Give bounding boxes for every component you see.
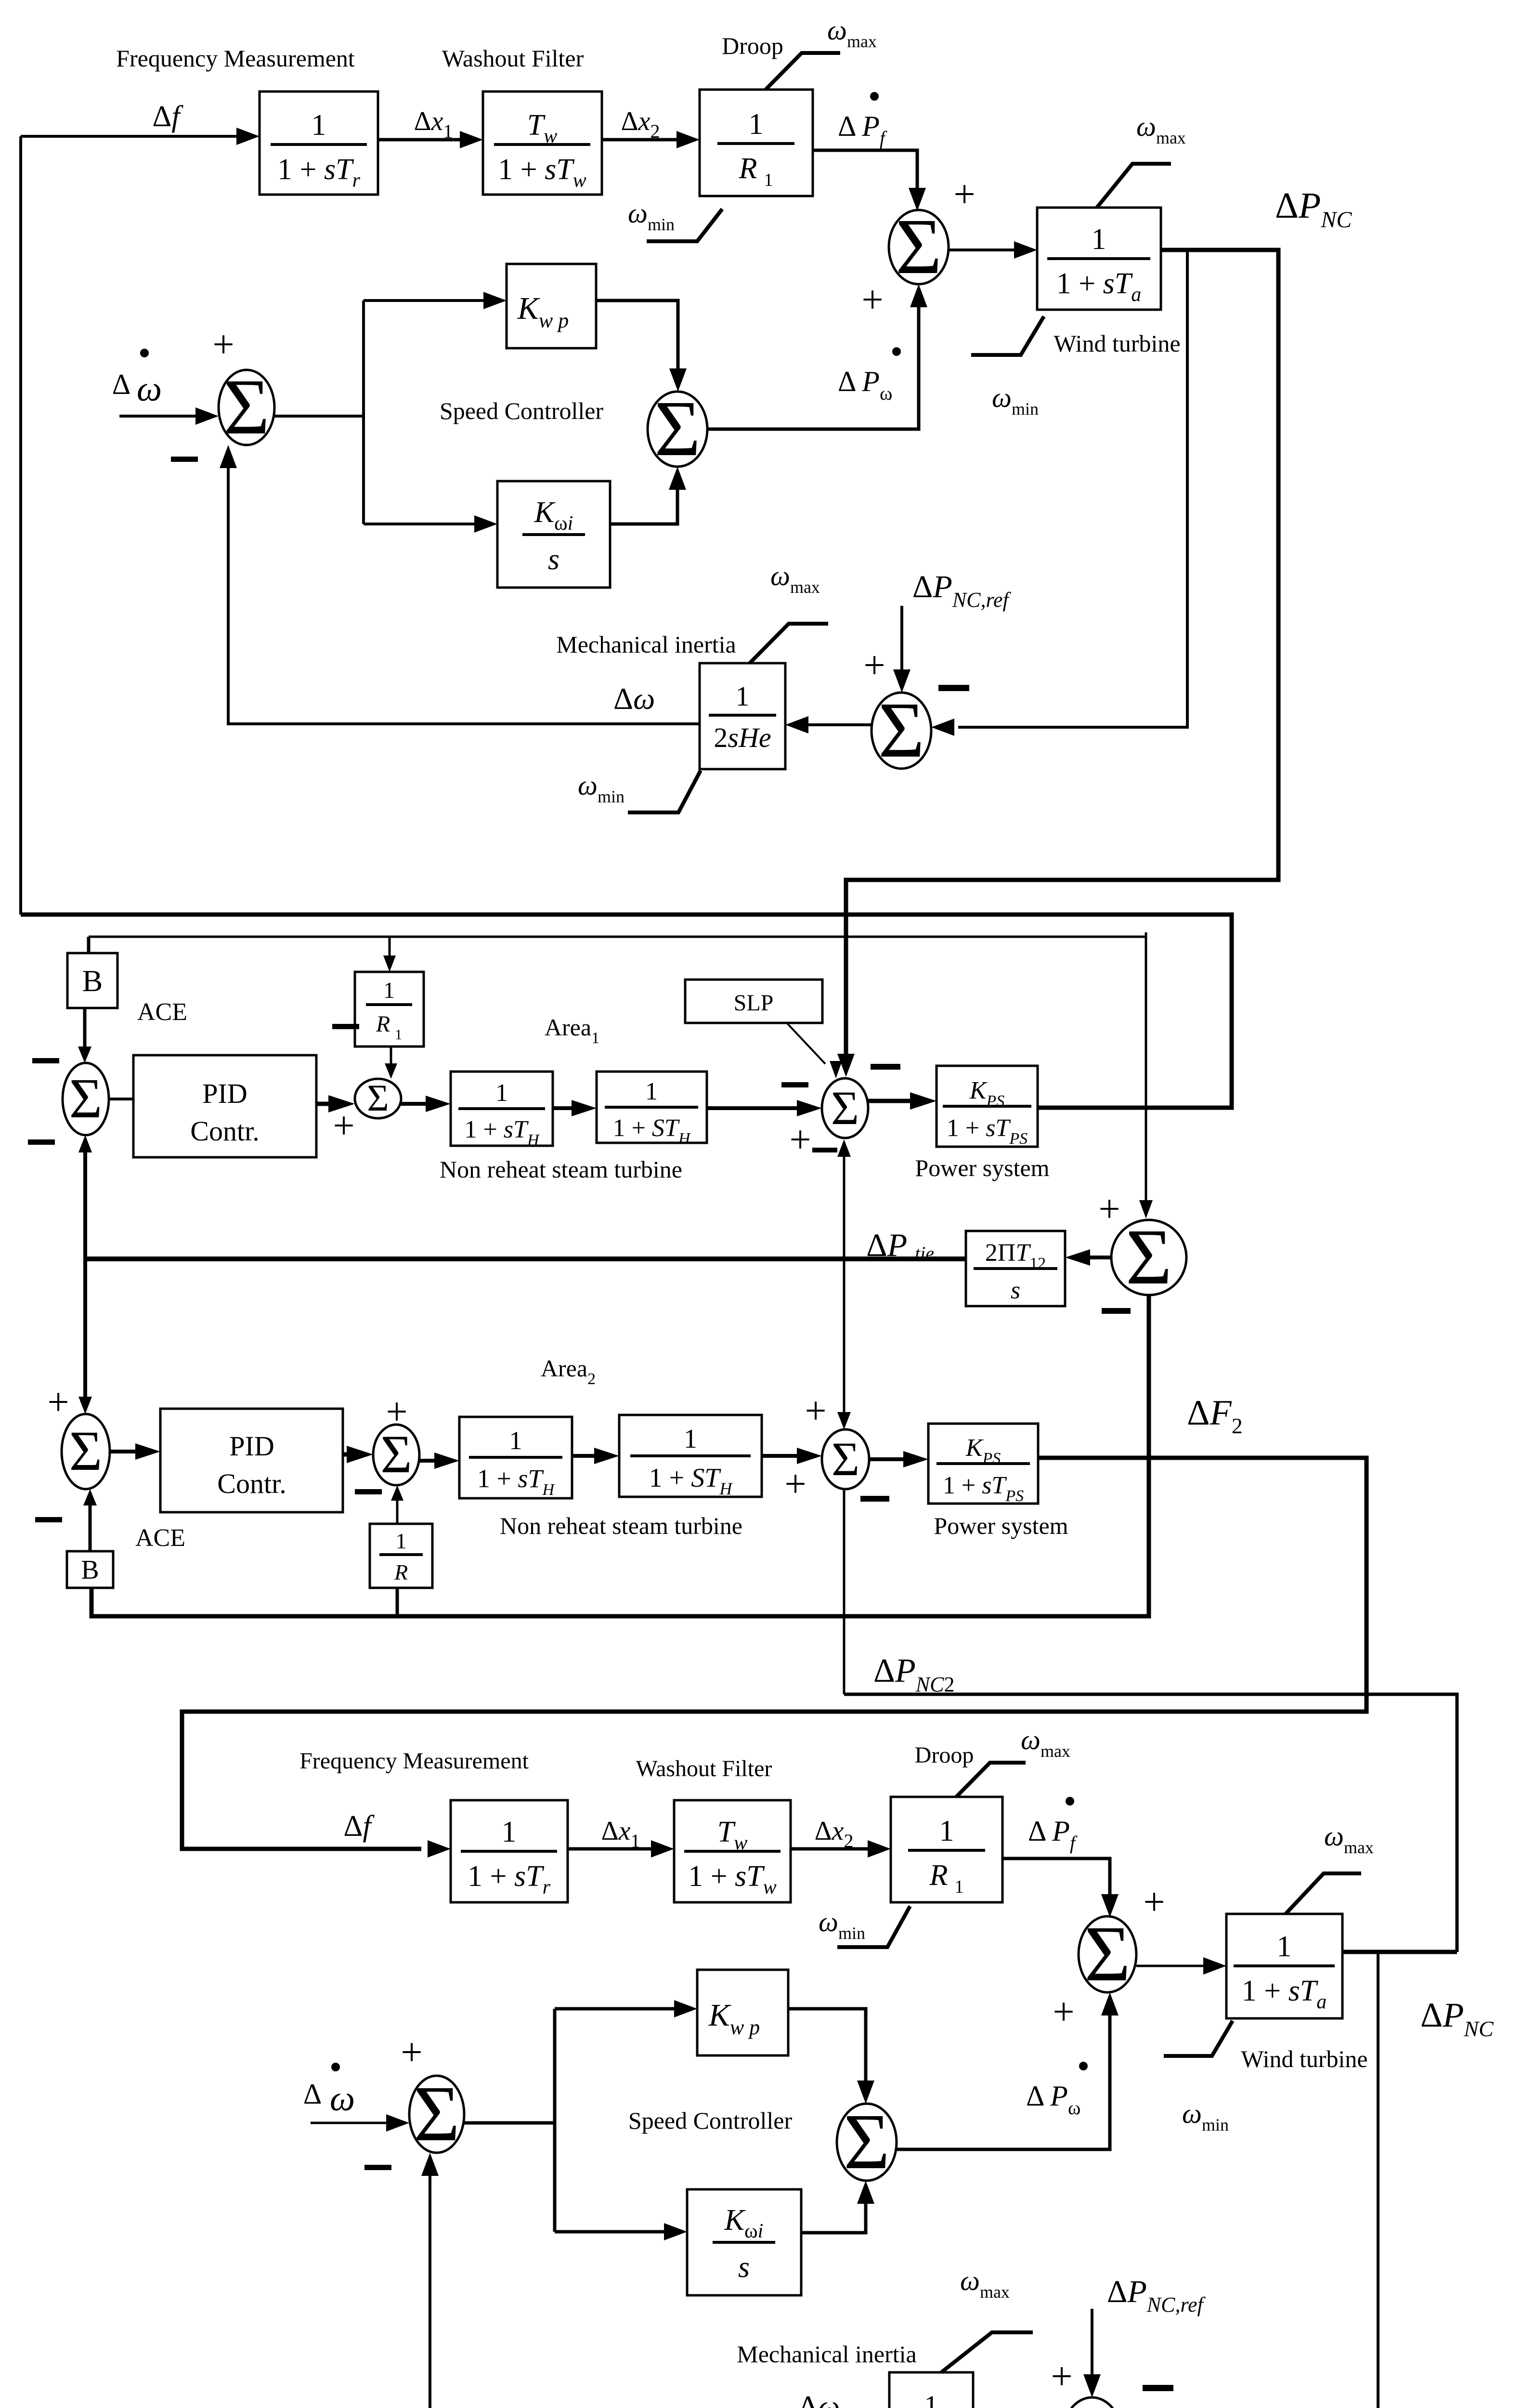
wire dPNC2 line: [844, 1694, 1457, 1952]
block KWI2 Kwi/s: [687, 2189, 801, 2295]
wire PID1 to S5: [316, 1095, 355, 1112]
node dx1 label: [414, 106, 453, 142]
svg-text:1: 1: [684, 1424, 697, 1454]
svg-text:+: +: [863, 644, 885, 687]
wire dPtie line: [85, 1256, 966, 1261]
wire B1 to S4: [78, 1008, 91, 1063]
limiter wmax TA1: [1097, 164, 1171, 208]
label dPNC bottom: [1420, 1996, 1494, 2041]
wire TH2A to TH2B: [572, 1448, 619, 1464]
node dx2b label: [815, 1816, 854, 1852]
svg-text:Contr.: Contr.: [217, 1468, 286, 1499]
svg-text:1: 1: [749, 108, 764, 141]
label minus S12 bottom: [364, 2165, 391, 2170]
node dPomega1 label: [838, 347, 901, 404]
block TH2A 1/(1+sTH): [459, 1417, 572, 1499]
svg-text:Δω: Δω: [613, 681, 655, 716]
svg-text:Σ: Σ: [896, 202, 942, 290]
wire TH2B to S10: [762, 1448, 822, 1464]
label plus S11 bottom: [1053, 1991, 1074, 2033]
label dPtie: [866, 1227, 934, 1264]
svg-text:+: +: [1053, 1991, 1074, 2033]
label wmax He1: [770, 560, 820, 597]
wire S6 to KPS1: [868, 1092, 937, 1110]
block TA1 wind turbine 1/(1+sTa): [1037, 208, 1161, 310]
limiter wmin He1: [628, 771, 701, 812]
wire dF1 distribution line: [89, 932, 1146, 953]
wire S7 down to B2 line: [91, 1295, 1149, 1616]
label minus S5 top: [332, 1024, 359, 1029]
label wmin droop1: [628, 197, 675, 234]
wire S3 to HE1: [785, 716, 872, 733]
node dx1b label: [601, 1816, 640, 1852]
summer S12 (speed error sum 2): [409, 2069, 464, 2158]
limiter wmin droop1: [647, 209, 722, 241]
wire S13 to S11: [897, 1992, 1119, 2149]
svg-text:PID: PID: [202, 1078, 247, 1109]
label minus S4 bottom: [28, 1139, 55, 1145]
svg-text:+: +: [861, 279, 883, 321]
label wmax He2: [960, 2265, 1010, 2302]
label minus S6 left: [781, 1082, 808, 1087]
svg-text:Σ: Σ: [1126, 1213, 1172, 1301]
block KWI1 Kwi/s: [497, 481, 610, 588]
wire R1 to sum W1: [813, 150, 926, 211]
svg-text:ω: ω: [330, 2079, 355, 2119]
svg-text:s: s: [548, 543, 559, 576]
svg-text:+: +: [789, 1119, 811, 1161]
label Non reheat steam turbine 2: [500, 1512, 742, 1539]
svg-text:Σ: Σ: [1084, 1910, 1131, 1998]
wire TA2 output: [1342, 1950, 1457, 1954]
block R1A 1/R1: [355, 972, 424, 1047]
svg-text:Non reheat steam turbine: Non reheat steam turbine: [440, 1156, 682, 1183]
wire tie vertical S4-S8: [78, 1135, 92, 1414]
svg-text:1: 1: [383, 978, 395, 1003]
label dF2: [1187, 1393, 1243, 1438]
wire S9 to TH2A: [419, 1453, 459, 1469]
label minus S4 top: [32, 1058, 59, 1063]
wire S5 to TH1A: [401, 1096, 451, 1112]
summer S14 (reference sum 2): [1062, 2393, 1122, 2408]
svg-text:Speed Controller: Speed Controller: [440, 397, 604, 424]
block TW1 Tw/(1+sTw): [483, 92, 602, 195]
block B2 frequency bias: [67, 1551, 113, 1588]
wire TR1 to TW1: [378, 131, 483, 148]
label Power system 1: [915, 1154, 1049, 1181]
wire KWI1 to S2: [610, 467, 686, 524]
label wmin TA1: [992, 382, 1039, 419]
block R2D droop 1/R1: [891, 1797, 1002, 1902]
label minus S7 bottom: [1102, 1308, 1131, 1314]
svg-text:+: +: [212, 324, 234, 366]
block TW2 Tw/(1+sTw): [674, 1800, 791, 1902]
wire branch to KWP1: [364, 292, 507, 309]
svg-text:Δ: Δ: [112, 368, 131, 400]
limiter wmax TA2: [1286, 1873, 1361, 1914]
label dPNC top: [1275, 185, 1352, 233]
block HE2 1/2sHe: [889, 2372, 973, 2408]
wire TA2 branch to S14: [1122, 1952, 1378, 2408]
label minus S6 bottom: [812, 1148, 837, 1152]
svg-text:Σ: Σ: [831, 1081, 859, 1135]
label Mechanical inertia 1: [556, 631, 736, 658]
node dw1 label: [613, 681, 655, 716]
svg-text:1: 1: [1277, 1930, 1292, 1963]
node dPf1 label: [838, 92, 887, 149]
label plus S8 top: [47, 1381, 69, 1424]
block PID1 controller: [133, 1055, 316, 1157]
label plus at S3 top: [863, 644, 885, 687]
block R2 1/R: [370, 1524, 432, 1588]
wire R1A to S5: [385, 1047, 397, 1079]
svg-text:1: 1: [736, 681, 750, 712]
block KPS1 Kps/(1+sTps): [937, 1066, 1038, 1148]
label wmin TA2: [1182, 2098, 1229, 2134]
label plus S6 bottomleft: [789, 1119, 811, 1161]
label Area2: [541, 1355, 596, 1388]
svg-text:Σ: Σ: [878, 686, 924, 774]
node dPf2 label: [1028, 1797, 1078, 1854]
svg-text:Washout Filter: Washout Filter: [636, 1756, 772, 1781]
label ACE 2: [135, 1524, 185, 1552]
label plus S5 bottom: [333, 1105, 354, 1147]
wire left vertical df1: [19, 136, 22, 915]
svg-text:Σ: Σ: [223, 363, 270, 451]
wire S1 out with branch: [274, 301, 364, 524]
label Power system 2: [934, 1512, 1068, 1539]
block TH2B 1/(1+STH): [619, 1415, 762, 1498]
block TH1B 1/(1+STH): [597, 1072, 707, 1148]
svg-text:+: +: [1051, 2356, 1072, 2398]
label minus S9 left: [355, 1489, 382, 1494]
svg-text:1: 1: [1092, 223, 1106, 256]
node dPomega2 label: [1026, 2062, 1088, 2119]
summer S9 (governor ref sum area2): [373, 1425, 419, 1485]
limiter wmax droop1: [766, 53, 840, 90]
node df1 label: [152, 100, 183, 133]
wire KWI2 to S13: [801, 2181, 874, 2233]
label minus at S1 bottom: [171, 457, 198, 462]
wire TH1B to S6: [707, 1100, 822, 1116]
wire TH1A to TH1B: [553, 1100, 597, 1116]
svg-text:+: +: [1098, 1188, 1120, 1230]
wire dwdot1 into S1: [119, 407, 219, 425]
label plus at sumW1 bottom: [861, 279, 883, 321]
limiter wmax droop2: [956, 1763, 1026, 1797]
wire sumW1 to TA1: [949, 241, 1037, 259]
wire R2 to S9: [391, 1485, 403, 1524]
label Washout Filter (model 1): [442, 45, 584, 72]
svg-text:Δf: Δf: [152, 100, 183, 133]
label Non reheat steam turbine 1: [440, 1156, 682, 1183]
summer S8 (ACE sum area2): [62, 1414, 110, 1489]
wire TW2 to R2D: [791, 1840, 891, 1858]
limiter wmax He2: [941, 2332, 1033, 2372]
label plus S10 topleft: [805, 1390, 826, 1432]
label dPNC2: [873, 1652, 954, 1696]
wire TR2 to TW2: [568, 1840, 674, 1858]
label Frequency Measurement (model 1): [116, 45, 355, 72]
wire branch to KWI1: [364, 515, 497, 533]
block HE1 1/2sHe: [700, 663, 785, 769]
block SLP label box: [685, 980, 822, 1023]
svg-text:PID: PID: [229, 1430, 274, 1462]
wire S11 to TA2: [1136, 1957, 1226, 1975]
summer S11 (wind model 2 power sum): [1079, 1910, 1136, 1998]
label ACE 1: [137, 998, 187, 1026]
label minus at S3 right: [938, 685, 969, 691]
svg-text:Σ: Σ: [654, 384, 701, 472]
summer S3 (reference sum 1): [872, 686, 931, 774]
svg-text:+: +: [805, 1390, 826, 1432]
svg-text:1: 1: [495, 1079, 508, 1107]
node dwdot2 label: [303, 2063, 355, 2119]
wire S8 to PID2: [110, 1443, 160, 1460]
svg-text:Contr.: Contr.: [190, 1115, 259, 1147]
label dPNCref 1: [912, 569, 1011, 612]
label plus at S1 top: [212, 324, 234, 366]
block TH1A 1/(1+sTH): [451, 1072, 553, 1149]
svg-text:Frequency Measurement: Frequency Measurement: [116, 45, 355, 72]
limiter wmax He1: [750, 624, 828, 663]
summer S7 (tie-line sum): [1111, 1213, 1186, 1301]
node dwdot1 label: [112, 349, 162, 409]
label minus S14 right: [1143, 2385, 1173, 2391]
label plus at sumW1 top: [953, 173, 975, 216]
svg-text:+: +: [333, 1105, 354, 1147]
svg-text:R: R: [394, 1560, 408, 1584]
summer S13 (controller output sum 2): [837, 2097, 897, 2186]
svg-text:1: 1: [509, 1426, 522, 1455]
label plus S7 top: [1098, 1188, 1120, 1230]
limiter wmin TA2: [1164, 2021, 1233, 2056]
wire branch to ref summer S3: [931, 250, 1187, 736]
label wmax droop1: [827, 14, 877, 51]
svg-text:Σ: Σ: [380, 1425, 412, 1484]
svg-text:Mechanical inertia: Mechanical inertia: [737, 2341, 916, 2368]
summer SW1 (wind model 1 power sum): [889, 202, 949, 290]
svg-text:Σ: Σ: [832, 1432, 859, 1486]
svg-text:B: B: [81, 1555, 99, 1585]
block TR2 1/(1+sTr): [451, 1800, 568, 1902]
wire TW1 to R1: [602, 131, 700, 148]
wire dF1 to tie summer S7: [1139, 937, 1153, 1218]
wire R2 stub to tie line: [396, 1588, 399, 1616]
label plus S10 left: [784, 1463, 806, 1505]
wire S12 out with branch: [464, 2009, 555, 2232]
label wmax TA2: [1324, 1820, 1374, 1857]
label plus S11 top: [1143, 1881, 1165, 1924]
svg-text:ACE: ACE: [137, 998, 187, 1026]
summer S2 (controller output sum 1): [648, 384, 707, 472]
wire S4 to PID1: [109, 1098, 133, 1100]
node dx2 label: [621, 106, 660, 142]
svg-text:SLP: SLP: [734, 990, 774, 1016]
label plus S14 top: [1051, 2356, 1072, 2398]
label Speed Controller 1: [440, 397, 604, 424]
svg-text:1: 1: [502, 1816, 517, 1848]
svg-text:Wind turbine: Wind turbine: [1241, 2045, 1367, 2072]
block KWP1 Kwp: [507, 264, 596, 348]
wire S2 to SW1: [707, 284, 927, 429]
label Wind turbine 1: [1054, 330, 1180, 357]
svg-text:+: +: [1143, 1881, 1165, 1924]
svg-text:Wind turbine: Wind turbine: [1054, 330, 1180, 357]
block B1 frequency bias: [67, 953, 117, 1008]
label wmax TA1: [1136, 111, 1186, 147]
svg-text:Non reheat steam turbine: Non reheat steam turbine: [500, 1512, 742, 1539]
wire df1 input arrow: [21, 128, 260, 145]
wire dPNC2 vertical through summers: [837, 1139, 851, 1694]
wire S7 to T12: [1065, 1249, 1111, 1266]
label Wind turbine 2: [1241, 2045, 1367, 2072]
svg-text:Σ: Σ: [844, 2097, 890, 2186]
block TA2 wind turbine 1/(1+sTa): [1226, 1914, 1342, 2018]
svg-text:Σ: Σ: [69, 1067, 103, 1130]
label Mechanical inertia 2: [737, 2341, 916, 2368]
limiter wmin TA1: [971, 316, 1044, 355]
svg-text:Washout Filter: Washout Filter: [442, 45, 584, 72]
svg-text:+: +: [401, 2031, 422, 2074]
svg-text:Speed Controller: Speed Controller: [628, 2107, 793, 2134]
wire KWP1 to S2: [596, 301, 687, 392]
wire KWP2 to S13: [788, 2009, 874, 2104]
svg-text:+: +: [784, 1463, 806, 1505]
wire dF1 return (KPS1 out): [21, 915, 1232, 1108]
label minus S8 bottom: [35, 1517, 62, 1522]
svg-text:Frequency Measurement: Frequency Measurement: [299, 1748, 529, 1774]
summer S5 (governor ref sum area1): [355, 1077, 401, 1119]
node df2 label: [343, 1810, 375, 1843]
svg-text:+: +: [47, 1381, 69, 1424]
label minus S10 bottomright: [860, 1496, 889, 1502]
wire branch to KWI2: [555, 2223, 687, 2240]
svg-text:Δω: Δω: [798, 2389, 840, 2408]
block T12 2*PI*T12/s: [966, 1231, 1065, 1306]
label plus S12 top: [401, 2031, 422, 2074]
label plus S9 top: [386, 1391, 407, 1433]
label Frequency Measurement (model 2): [299, 1748, 529, 1774]
svg-text:Σ: Σ: [414, 2069, 460, 2158]
label dPNCref 2: [1107, 2274, 1206, 2316]
svg-text:1: 1: [312, 109, 326, 142]
svg-text:Σ: Σ: [69, 1419, 103, 1482]
block R1 droop 1/R1: [700, 90, 813, 196]
wire SLP pointer: [787, 1023, 842, 1078]
label minus S6 topright: [871, 1064, 900, 1070]
svg-text:Σ: Σ: [367, 1077, 389, 1119]
block PID2 controller: [160, 1409, 343, 1512]
wire branch to KWP2: [555, 2000, 697, 2017]
svg-text:Droop: Droop: [915, 1742, 974, 1768]
label Droop (model 2): [915, 1742, 974, 1768]
label Area1: [545, 1014, 599, 1047]
summer S6 (power sum area1): [822, 1078, 868, 1138]
svg-text:1: 1: [645, 1078, 658, 1105]
wire R2D to S11: [1002, 1858, 1119, 1917]
wire dPNCref into S14: [1083, 2309, 1101, 2397]
wire B2 to S8: [83, 1489, 97, 1551]
label Speed Controller 2: [628, 2107, 793, 2134]
svg-text:Mechanical inertia: Mechanical inertia: [556, 631, 736, 658]
summer S10 (power sum area2): [822, 1429, 869, 1489]
svg-text:+: +: [953, 173, 975, 216]
svg-text:Droop: Droop: [722, 32, 783, 59]
label Droop (model 1): [722, 32, 783, 59]
block KPS2 Kps/(1+sTps): [928, 1424, 1038, 1505]
svg-text:s: s: [1011, 1277, 1020, 1304]
label Washout Filter (model 2): [636, 1756, 772, 1781]
svg-text:ω: ω: [137, 369, 162, 409]
svg-text:Σ: Σ: [1069, 2393, 1115, 2408]
svg-text:Δf: Δf: [343, 1810, 375, 1843]
svg-text:1: 1: [939, 1815, 954, 1847]
svg-text:s: s: [738, 2251, 750, 2284]
svg-text:1: 1: [924, 2390, 938, 2408]
block TR1 1/(1+sTr): [260, 92, 378, 195]
node dw2 label: [798, 2389, 840, 2408]
wire PID2 to S9: [343, 1446, 373, 1463]
wire dF1 to R1A: [383, 937, 396, 972]
svg-text:ACE: ACE: [135, 1524, 185, 1552]
wire HE1 to S1 feedback: [220, 445, 700, 724]
summer S1 (speed error sum 1): [219, 363, 274, 451]
svg-text:Power system: Power system: [915, 1154, 1049, 1181]
label wmax droop2: [1021, 1724, 1070, 1761]
wire dwdot2 into S12: [311, 2114, 409, 2132]
wire HE2 to S12 feedback: [421, 2153, 889, 2408]
limiter wmin droop2: [837, 1906, 910, 1947]
svg-text:2sHe: 2sHe: [714, 722, 771, 753]
wire dPNCref into S3: [893, 606, 911, 693]
label wmin He1: [578, 770, 624, 806]
svg-text:Power system: Power system: [934, 1512, 1068, 1539]
label wmin droop2: [819, 1906, 865, 1943]
block KWP2 Kwp: [697, 1970, 788, 2055]
wire dPNC trunk to SLP summer: [837, 250, 1278, 1077]
svg-text:Δ: Δ: [303, 2078, 322, 2110]
summer S4 (ACE sum area1): [63, 1063, 109, 1135]
wire S10 to KPS2: [869, 1451, 928, 1467]
wire dF2 return to wind model 2: [182, 1458, 1366, 1858]
svg-text:1: 1: [396, 1529, 407, 1553]
svg-text:B: B: [82, 964, 103, 998]
